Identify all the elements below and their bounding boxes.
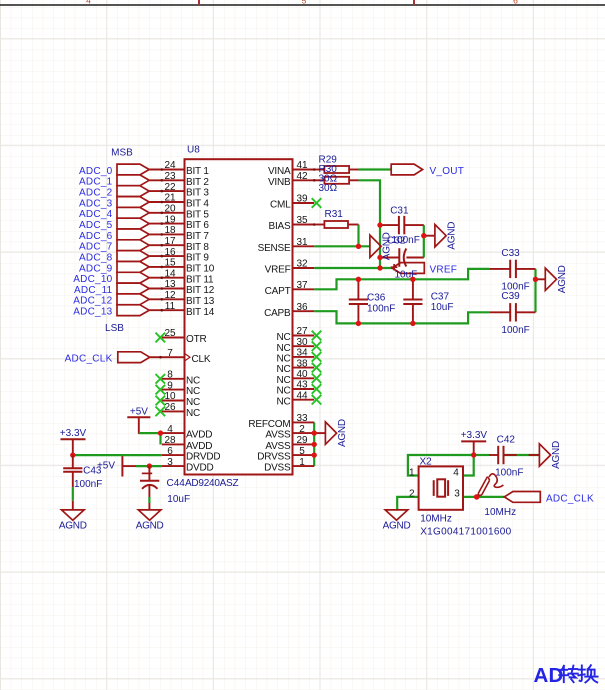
svg-text:ADC_9: ADC_9: [79, 263, 113, 274]
svg-text:NC: NC: [276, 364, 290, 375]
junction dot crystal pin 3: [474, 494, 480, 500]
port ADC_3: [117, 197, 149, 208]
resistor R29 30R, pin 41 to V_OUT: [314, 169, 324, 171]
svg-text:BIT 13: BIT 13: [186, 296, 215, 307]
svg-text:CML: CML: [270, 200, 291, 211]
svg-text:14: 14: [164, 268, 176, 279]
svg-text:26: 26: [164, 402, 176, 413]
svg-text:V_OUT: V_OUT: [430, 166, 465, 177]
svg-text:2: 2: [299, 424, 305, 435]
wire +5V to AVDD pins 4 and 28: [139, 417, 161, 433]
svg-text:32: 32: [296, 259, 308, 270]
svg-text:CLK: CLK: [192, 354, 211, 365]
svg-text:39: 39: [296, 194, 308, 205]
ground AGND flag for C31/C32: [424, 235, 435, 237]
svg-text:38: 38: [296, 358, 308, 369]
svg-text:C39: C39: [501, 291, 520, 302]
svg-text:NC: NC: [186, 386, 200, 397]
svg-text:BIT 14: BIT 14: [186, 307, 215, 318]
svg-text:DRVSS: DRVSS: [257, 452, 291, 463]
svg-text:6: 6: [167, 446, 173, 457]
svg-text:ADC_11: ADC_11: [74, 285, 113, 296]
svg-text:AVDD: AVDD: [186, 441, 212, 452]
wire C44 to AGND: [148, 497, 150, 503]
port ADC_2: [117, 186, 149, 197]
svg-text:BIT 2: BIT 2: [186, 177, 209, 188]
svg-text:ADC_10: ADC_10: [73, 274, 112, 285]
no-connect X on pin 39 CML: [312, 198, 322, 208]
svg-text:10MHz: 10MHz: [420, 513, 452, 524]
svg-text:AD9240ASZ: AD9240ASZ: [185, 478, 238, 489]
svg-text:6: 6: [513, 0, 518, 6]
ground AGND flag on AVSS net: [325, 422, 336, 444]
svg-text:1: 1: [299, 457, 305, 468]
svg-text:C44: C44: [167, 478, 186, 489]
svg-text:ADC_6: ADC_6: [79, 231, 113, 242]
port V_OUT: [391, 164, 422, 175]
svg-text:OTR: OTR: [186, 334, 207, 345]
svg-text:41: 41: [296, 160, 308, 171]
svg-text:42: 42: [296, 171, 308, 182]
capacitor C39 100nF: [489, 311, 510, 313]
svg-text:AVSS: AVSS: [265, 430, 291, 441]
svg-text:NC: NC: [276, 332, 290, 343]
svg-text:17: 17: [164, 236, 176, 247]
svg-text:REFCOM: REFCOM: [248, 419, 290, 430]
svg-text:33: 33: [296, 413, 308, 424]
svg-text:AGND: AGND: [337, 419, 348, 447]
port ADC_7: [117, 240, 149, 251]
port VREF: [392, 263, 424, 274]
svg-text:11: 11: [165, 301, 176, 312]
ground AGND flag for C42: [539, 444, 550, 466]
crystal X2 10MHz: [419, 466, 463, 509]
svg-text:7: 7: [167, 348, 173, 359]
wire C43 to AGND: [72, 487, 74, 501]
svg-text:C37: C37: [431, 291, 450, 302]
wire C33/C39 right plates to AGND: [534, 269, 536, 312]
IC U8 pin 25 OTR with no-connect X: [162, 337, 185, 339]
svg-text:BIT 6: BIT 6: [186, 220, 209, 231]
svg-text:VREF: VREF: [430, 264, 458, 275]
svg-text:NC: NC: [186, 408, 200, 419]
svg-text:BIAS: BIAS: [269, 221, 292, 232]
svg-text:AGND: AGND: [382, 232, 393, 260]
svg-text:ADC_1: ADC_1: [79, 177, 113, 188]
svg-text:SENSE: SENSE: [258, 243, 291, 254]
svg-text:BIT 10: BIT 10: [186, 264, 215, 275]
svg-text:VINA: VINA: [268, 166, 291, 177]
svg-text:ADC_5: ADC_5: [79, 220, 113, 231]
svg-text:ADC_0: ADC_0: [79, 166, 113, 177]
svg-text:AVSS: AVSS: [265, 441, 291, 452]
port ADC_12: [117, 294, 149, 305]
wire R30 output down to VREF net: [359, 180, 381, 268]
port ADC_CLK (input to CLK): [118, 352, 150, 363]
port ADC_1: [117, 175, 149, 186]
svg-text:43: 43: [296, 380, 308, 391]
IC U8 pin 7 CLK: [150, 356, 185, 358]
probe symbol on ADC_CLK net: [478, 474, 503, 496]
svg-text:NC: NC: [276, 354, 290, 365]
svg-text:BIT 1: BIT 1: [186, 166, 209, 177]
svg-text:CAPB: CAPB: [264, 308, 291, 319]
svg-text:ADC_2: ADC_2: [79, 188, 113, 199]
svg-text:AGND: AGND: [557, 265, 568, 293]
svg-text:10MHz: 10MHz: [484, 507, 516, 518]
svg-text:19: 19: [164, 214, 176, 225]
svg-text:100nF: 100nF: [495, 468, 523, 479]
svg-text:AVDD: AVDD: [186, 430, 212, 441]
ground AGND under C44: [148, 503, 150, 510]
svg-text:35: 35: [296, 215, 308, 226]
svg-text:BIT 8: BIT 8: [186, 242, 209, 253]
svg-text:12: 12: [164, 290, 176, 301]
svg-text:5: 5: [302, 0, 307, 6]
wire R31 down to SENSE net: [357, 225, 359, 247]
port ADC_CLK (output from crystal): [504, 492, 540, 503]
svg-text:5: 5: [299, 446, 305, 457]
svg-text:+5V: +5V: [97, 461, 115, 472]
port ADC_0: [117, 164, 149, 175]
svg-text:+3.3V: +3.3V: [461, 430, 488, 441]
port ADC_5: [117, 218, 149, 229]
port ADC_9: [117, 262, 149, 273]
wire CAPT net (pin 37 to C36/C37 tops and C33): [314, 269, 489, 289]
junction dot R31/SENSE: [356, 244, 361, 249]
svg-text:ADC_8: ADC_8: [79, 253, 113, 264]
capacitor C42 100nF: [489, 454, 498, 456]
svg-text:C31: C31: [390, 206, 409, 217]
resistor R31 on BIAS pin 35: [314, 224, 324, 226]
wire +5V to DVDD pin 3: [136, 465, 162, 467]
capacitor C44 10uF polarized: [148, 466, 150, 481]
wire +3.3V to crystal pins 1 and 4: [408, 455, 474, 476]
port ADC_13: [117, 305, 149, 316]
junction dot DVDD/C44: [147, 463, 152, 468]
svg-text:ADC_3: ADC_3: [79, 198, 113, 209]
IC U8 pins REFCOM 33, AVSS 2, AVSS 29, DRVSS 5, DVSS 1: [293, 421, 315, 423]
svg-text:NC: NC: [186, 397, 200, 408]
wire AVSS/DRVSS/DVSS to AGND: [313, 422, 315, 466]
svg-text:10uF: 10uF: [167, 494, 190, 505]
IC U8 left pins BIT 1..BIT 14, pins 24..11: [149, 169, 184, 171]
svg-text:U8: U8: [187, 145, 200, 156]
svg-text:BIT 11: BIT 11: [186, 274, 214, 285]
wire R29 to V_OUT port: [359, 168, 392, 170]
svg-text:NC: NC: [276, 343, 290, 354]
svg-text:4: 4: [453, 467, 459, 478]
svg-text:R31: R31: [325, 209, 344, 220]
wire CAPB net (pin 36 to C36/C37 bottoms and C39): [314, 311, 489, 323]
svg-text:C33: C33: [501, 248, 520, 259]
svg-text:30Ω: 30Ω: [319, 183, 338, 194]
svg-text:100nF: 100nF: [74, 479, 102, 490]
svg-text:BIT 9: BIT 9: [186, 253, 209, 264]
capacitor C33 100nF: [489, 268, 510, 270]
svg-text:X1G004171001600: X1G004171001600: [420, 526, 511, 537]
svg-text:LSB: LSB: [105, 323, 124, 334]
svg-text:NC: NC: [276, 375, 290, 386]
svg-text:9: 9: [167, 380, 173, 391]
svg-text:10: 10: [164, 391, 176, 402]
svg-text:2: 2: [409, 488, 415, 499]
svg-text:36: 36: [296, 302, 308, 313]
wire C42 to AGND: [474, 454, 489, 456]
svg-text:1: 1: [409, 467, 415, 478]
capacitor C36 100nF: [357, 279, 359, 299]
ground AGND at crystal pin 2: [385, 510, 408, 520]
port ADC_4: [117, 207, 149, 218]
svg-text:15: 15: [164, 258, 176, 269]
wire SENSE pin 31 to AGND flag: [314, 245, 370, 247]
port ADC_10: [117, 272, 149, 283]
svg-text:MSB: MSB: [111, 147, 133, 158]
svg-text:CAPT: CAPT: [265, 286, 291, 297]
svg-text:10uF: 10uF: [431, 302, 454, 313]
ground AGND flag for C33/C39: [536, 278, 546, 280]
svg-text:AGND: AGND: [136, 521, 164, 532]
svg-text:ADC_12: ADC_12: [73, 296, 112, 307]
junction dots AVSS net: [312, 430, 317, 435]
IC U8 AD9240ASZ body: [185, 159, 293, 474]
svg-text:VREF: VREF: [265, 265, 291, 276]
capacitor C32 10uF polarized: [380, 257, 399, 259]
svg-text:ADC_CLK: ADC_CLK: [65, 354, 113, 365]
junction dots on VREF vertical net: [377, 222, 382, 227]
IC U8 right NC pins 27,30,34,38,40,43,44 with no-connect X: [293, 335, 315, 337]
svg-text:27: 27: [296, 326, 308, 337]
svg-text:+3.3V: +3.3V: [60, 428, 87, 439]
svg-text:16: 16: [164, 247, 176, 258]
svg-text:100nF: 100nF: [501, 325, 529, 336]
svg-text:29: 29: [296, 435, 308, 446]
IC U8 power pins AVDD 4, AVDD 28, DRVDD 6, DVDD 3: [162, 432, 185, 434]
port ADC_6: [117, 229, 149, 240]
junction dot +3.3V/DRVDD/C43: [70, 452, 75, 457]
svg-text:22: 22: [164, 182, 176, 193]
wire C31/C32 right plates to AGND: [423, 225, 425, 257]
IC U8 left NC pins 8,9,10,26 with no-connect X: [162, 378, 185, 380]
IC U8 right pins VINA,VINB,CML,BIAS,SENSE,VREF,CAPT,CAPB: [293, 169, 315, 171]
svg-text:BIT 5: BIT 5: [186, 209, 209, 220]
svg-text:4: 4: [167, 424, 173, 435]
svg-text:NC: NC: [186, 375, 200, 386]
svg-text:30: 30: [296, 337, 308, 348]
svg-text:31: 31: [296, 237, 308, 248]
svg-text:BIT 12: BIT 12: [186, 285, 215, 296]
svg-text:DVDD: DVDD: [186, 463, 214, 474]
svg-text:C36: C36: [367, 293, 386, 304]
svg-text:23: 23: [164, 171, 176, 182]
svg-text:3: 3: [167, 457, 173, 468]
svg-text:24: 24: [164, 160, 176, 171]
svg-text:AGND: AGND: [551, 441, 562, 469]
svg-text:37: 37: [296, 280, 308, 291]
wire VREF pin 32 to VREF port: [314, 267, 392, 269]
svg-text:8: 8: [167, 370, 173, 381]
svg-text:NC: NC: [276, 396, 290, 407]
junction dot +3.3V/crystal: [471, 452, 476, 457]
svg-text:34: 34: [296, 348, 308, 359]
svg-text:C42: C42: [497, 435, 516, 446]
svg-text:AGND: AGND: [383, 521, 411, 532]
capacitor C37 10uF: [412, 279, 414, 299]
port ADC_8: [117, 251, 149, 262]
svg-text:100nF: 100nF: [367, 304, 395, 315]
svg-text:AGND: AGND: [447, 222, 458, 250]
svg-text:28: 28: [164, 435, 176, 446]
ground AGND flag on SENSE net: [370, 235, 381, 257]
capacitor C31 100nF: [380, 224, 399, 226]
svg-text:18: 18: [164, 225, 176, 236]
wire +3.3V rail to DRVDD pin 6: [73, 454, 162, 456]
ground AGND under C43: [72, 501, 74, 510]
svg-text:44: 44: [296, 390, 308, 401]
capacitor C43 100nF: [72, 455, 74, 468]
svg-text:13: 13: [164, 279, 176, 290]
resistor R30 30R, pin 42 to VREF net: [314, 179, 324, 181]
junction dot AVDD pin 4: [158, 430, 163, 435]
svg-text:DRVDD: DRVDD: [186, 452, 220, 463]
svg-text:ADC_CLK: ADC_CLK: [546, 493, 594, 504]
svg-text:BIT 3: BIT 3: [186, 188, 209, 199]
svg-text:4: 4: [86, 0, 91, 6]
wire crystal pin 2 to AGND: [397, 497, 418, 510]
svg-text:3: 3: [454, 488, 460, 499]
svg-text:25: 25: [164, 328, 176, 339]
sheet frame top border: [0, 4, 605, 6]
svg-text:20: 20: [164, 204, 176, 215]
svg-text:ADC_13: ADC_13: [73, 307, 112, 318]
svg-text:BIT 4: BIT 4: [186, 199, 209, 210]
svg-text:X2: X2: [420, 457, 433, 468]
svg-text:ADC_4: ADC_4: [79, 209, 113, 220]
svg-text:21: 21: [164, 193, 176, 204]
svg-text:NC: NC: [276, 386, 290, 397]
svg-text:VINB: VINB: [268, 177, 291, 188]
svg-text:BIT 7: BIT 7: [186, 231, 209, 242]
svg-text:DVSS: DVSS: [264, 463, 291, 474]
svg-text:ADC_7: ADC_7: [79, 242, 113, 253]
svg-text:40: 40: [296, 369, 308, 380]
svg-text:+5V: +5V: [130, 407, 148, 418]
svg-text:AGND: AGND: [59, 521, 87, 532]
wire crystal pin 3 to ADC_CLK port: [463, 496, 504, 498]
port ADC_11: [117, 283, 149, 294]
